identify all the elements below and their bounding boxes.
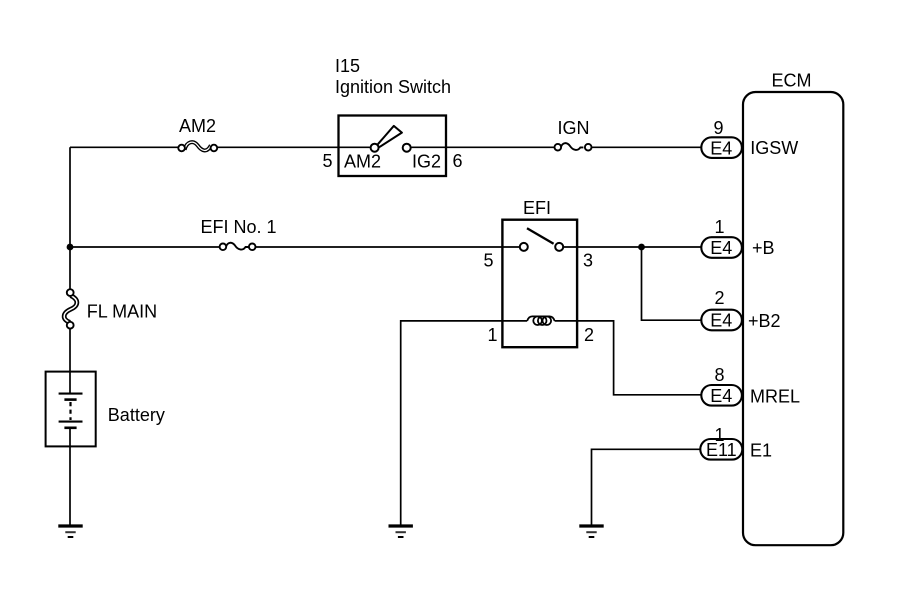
junction node (battery feed / EFI No.1) <box>67 244 74 251</box>
svg-text:8: 8 <box>714 365 724 385</box>
svg-text:MREL: MREL <box>750 387 800 407</box>
wire: +B2 branch <box>642 247 704 320</box>
relay coil <box>527 316 554 325</box>
wire: top horizontal from battery branch to AM2 fuse <box>70 146 178 148</box>
svg-text:IGN: IGN <box>557 118 589 138</box>
battery box <box>46 372 96 447</box>
connector E11 pin 1 (E1) <box>700 439 742 460</box>
relay switch arm <box>527 228 554 244</box>
svg-text:FL MAIN: FL MAIN <box>87 302 157 322</box>
wire: ignition switch IG2 to IGN fuse <box>411 146 555 148</box>
svg-text:E4: E4 <box>710 138 732 158</box>
wire: EFI fuse to relay contact 5 <box>256 246 520 248</box>
wire: relay contact 3 to connector E4 pin 1 <box>563 246 703 248</box>
wire: left vertical battery feed <box>69 147 71 289</box>
svg-text:EFI No. 1: EFI No. 1 <box>201 217 277 237</box>
svg-text:5: 5 <box>322 151 332 171</box>
connector E4 pin 8 (MREL) <box>701 385 742 406</box>
fuse EFI No. 1 (thin wave) <box>220 243 256 250</box>
svg-text:2: 2 <box>584 325 594 345</box>
battery plate short 2 (-) <box>64 426 76 429</box>
svg-text:9: 9 <box>713 118 723 138</box>
wire: relay pin 2 to MREL <box>555 321 703 395</box>
fusible link FL MAIN (thick vertical wave) <box>64 289 77 328</box>
svg-text:1: 1 <box>714 425 724 445</box>
svg-text:6: 6 <box>453 151 463 171</box>
svg-text:IG2: IG2 <box>412 152 441 172</box>
wire: EFI No. 1 feed from junction to fuse <box>70 246 220 248</box>
ignition switch lever (wedge) <box>377 126 402 147</box>
ground (battery) <box>58 526 82 537</box>
svg-text:AM2: AM2 <box>344 152 381 172</box>
svg-text:1: 1 <box>488 325 498 345</box>
ignition switch contact AM2 (pin 5) <box>371 144 379 152</box>
ground (E1) <box>579 526 603 537</box>
wire: AM2 fuse to ignition switch contact 5 <box>218 146 371 148</box>
ignition switch contact IG2 (pin 6) <box>403 144 411 152</box>
svg-text:ECM: ECM <box>772 71 812 91</box>
battery plate long 2 (+) <box>59 421 83 423</box>
wire: FL MAIN to battery <box>69 329 71 372</box>
svg-text:+B: +B <box>752 238 775 258</box>
battery plate long (+) <box>59 393 83 395</box>
relay contact 5 <box>520 243 528 251</box>
battery dashed link <box>69 402 71 420</box>
wire: battery to ground <box>69 429 71 525</box>
battery internal lead top <box>69 372 71 393</box>
wire: E1 to ground run <box>592 449 702 525</box>
svg-text:IGSW: IGSW <box>750 138 798 158</box>
junction node (+B / +B2 branch) <box>638 244 645 251</box>
svg-text:+B2: +B2 <box>748 311 781 331</box>
svg-text:I15: I15 <box>335 56 360 76</box>
wire: IGN fuse to connector E4 pin 9 <box>592 146 704 148</box>
svg-text:EFI: EFI <box>523 198 551 218</box>
connector E4 pin 2 (+B2) <box>701 310 742 331</box>
svg-text:E4: E4 <box>710 238 732 258</box>
battery plate short (-) <box>64 398 76 401</box>
connector E4 pin 9 (IGSW) <box>701 137 742 158</box>
svg-text:Battery: Battery <box>108 405 165 425</box>
svg-text:1: 1 <box>714 217 724 237</box>
svg-text:2: 2 <box>714 288 724 308</box>
svg-text:5: 5 <box>483 251 493 271</box>
ECM box <box>743 92 843 545</box>
wire: relay pin 1 to ground run <box>401 321 528 525</box>
svg-text:3: 3 <box>583 251 593 271</box>
svg-text:E4: E4 <box>710 311 732 331</box>
svg-text:Ignition Switch: Ignition Switch <box>335 77 451 97</box>
relay EFI box <box>502 220 577 348</box>
svg-text:E1: E1 <box>750 441 772 461</box>
connector E4 pin 1 (+B) <box>701 237 742 258</box>
svg-text:AM2: AM2 <box>179 116 216 136</box>
svg-text:E4: E4 <box>710 386 732 406</box>
fuse IGN (thin wave) <box>555 143 592 150</box>
relay contact 3 <box>555 243 563 251</box>
ignition switch I15 box <box>339 116 447 177</box>
fusible link AM2 (thick wave) <box>178 142 217 151</box>
ground (relay coil) <box>389 526 413 537</box>
